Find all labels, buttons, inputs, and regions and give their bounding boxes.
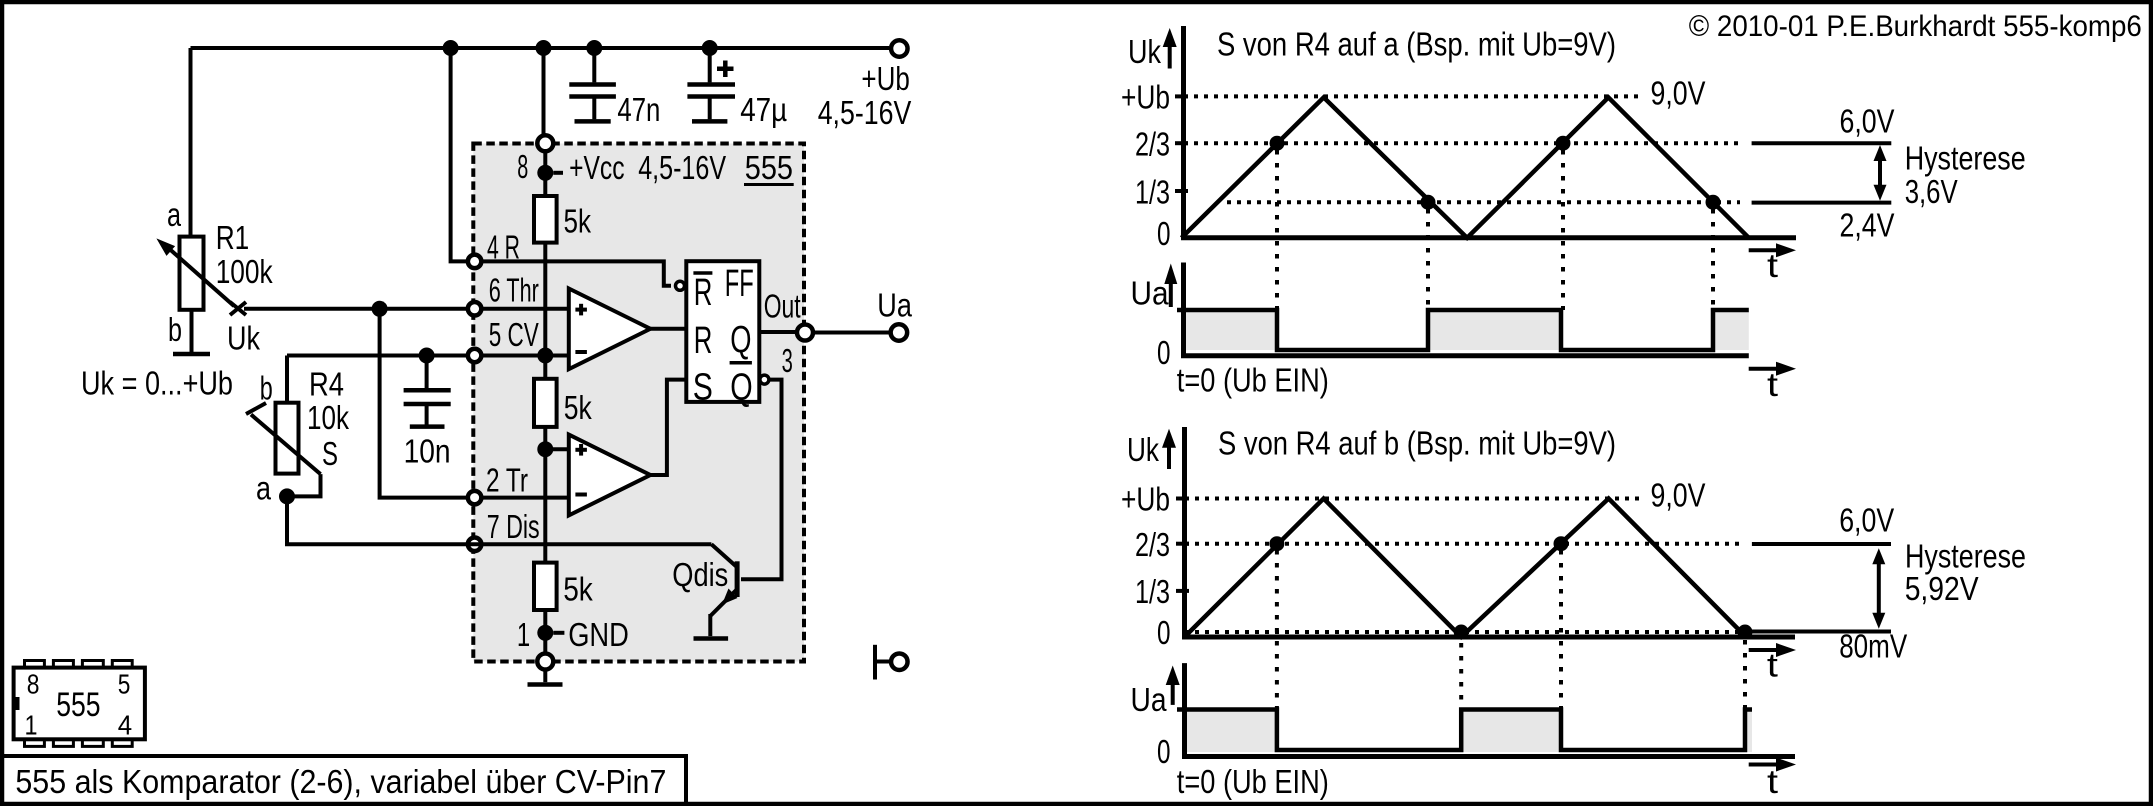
svg-text:555: 555 xyxy=(56,686,100,724)
node junction above C 10n xyxy=(419,348,435,364)
svg-text:7 Dis: 7 Dis xyxy=(487,508,540,545)
graph A triangle waveform Uk xyxy=(1182,97,1749,237)
svg-text:47µ: 47µ xyxy=(740,91,787,128)
svg-text:+Ub: +Ub xyxy=(1121,481,1170,518)
svg-text:0: 0 xyxy=(1157,215,1171,252)
svg-text:t: t xyxy=(1767,647,1778,684)
label 555 underlined xyxy=(744,149,794,186)
ground under 10n xyxy=(410,424,445,429)
wire: rail to pin 8 xyxy=(542,48,546,135)
svg-text:555 als Komparator (2-6), vari: 555 als Komparator (2-6), variabel über … xyxy=(15,763,666,800)
svg-text:© 2010-01 P.E.Burkhardt 555-ko: © 2010-01 P.E.Burkhardt 555-komp6 xyxy=(1689,10,2142,43)
graph B triangle waveform Uk xyxy=(1185,499,1747,638)
svg-text:+Vcc: +Vcc xyxy=(569,149,625,186)
wire: divider lower to pin1 xyxy=(543,610,547,654)
svg-text:S: S xyxy=(322,435,338,472)
svg-text:+Ub: +Ub xyxy=(1121,79,1170,116)
graph A hysteresis annotation xyxy=(1752,103,2026,244)
svg-text:3,6V: 3,6V xyxy=(1905,173,1958,210)
svg-text:4: 4 xyxy=(118,710,132,741)
potentiometer R1 xyxy=(156,48,273,352)
svg-text:555: 555 xyxy=(745,149,793,186)
svg-text:9,0V: 9,0V xyxy=(1651,75,1706,112)
svg-text:Uk: Uk xyxy=(1127,431,1159,468)
IC DIP-8 package symbol 555 xyxy=(13,661,145,747)
graph A x axis xyxy=(1181,235,1796,240)
potentiometer R4 xyxy=(246,356,349,507)
wire: comparator2 out to FF S xyxy=(650,380,686,475)
pin 1 circle xyxy=(537,654,553,670)
resistor 5k upper xyxy=(534,196,591,243)
svg-text:R: R xyxy=(694,320,713,362)
svg-text:3: 3 xyxy=(782,342,793,379)
graph B Ua x axis xyxy=(1182,754,1795,759)
graph B level labels xyxy=(1121,481,1171,652)
node junction on rail above pin 8 xyxy=(536,40,552,56)
graph A dotted verticals xyxy=(1277,150,1713,310)
pin 4 circle xyxy=(468,255,482,269)
svg-text:0: 0 xyxy=(1157,334,1171,371)
svg-text:1: 1 xyxy=(517,616,530,653)
svg-text:Uk: Uk xyxy=(227,320,260,357)
svg-text:GND: GND xyxy=(568,616,629,653)
wire: FF Qbar to Qdis base xyxy=(741,380,782,580)
node junction on rail above C 47u xyxy=(702,40,718,56)
svg-text:4,5-16V: 4,5-16V xyxy=(638,149,726,186)
svg-text:t=0 (Ub EIN): t=0 (Ub EIN) xyxy=(1177,763,1329,800)
svg-text:5,92V: 5,92V xyxy=(1905,570,1979,607)
svg-text:2/3: 2/3 xyxy=(1135,526,1170,563)
capacitor 10n xyxy=(404,356,451,470)
graph B Ua x axis arrow and t xyxy=(1749,758,1796,801)
svg-text:1/3: 1/3 xyxy=(1135,173,1170,210)
terminal Ua ground reference xyxy=(875,645,908,680)
wire: R1 wiper to pin 6 Thr xyxy=(244,307,466,311)
svg-text:10k: 10k xyxy=(307,399,349,436)
graph A dotted level +Ub xyxy=(1184,94,1641,98)
wire: rail to pin 4 R xyxy=(451,48,467,261)
svg-text:Uk = 0...+Ub: Uk = 0...+Ub xyxy=(81,365,233,402)
graph A threshold dots xyxy=(1270,136,1721,210)
op-amp comparator 2 (Tr) xyxy=(569,435,651,516)
wire: R4 a to pin 7 Dis xyxy=(287,496,466,544)
graph A dotted level 2/3 xyxy=(1184,141,1740,145)
wire: pin2 to comparator2 minus xyxy=(482,496,569,500)
ground under Qdis emitter xyxy=(694,636,729,641)
svg-text:FF: FF xyxy=(725,263,754,305)
graph A Ua y axis xyxy=(1181,263,1186,356)
svg-text:Qdis: Qdis xyxy=(672,556,728,593)
graph A Ua square wave fill xyxy=(1182,310,1749,350)
wire: pin3 to Ua terminal xyxy=(812,331,890,335)
graph B dotted level 0 xyxy=(1185,630,1741,634)
svg-text:1/3: 1/3 xyxy=(1135,573,1170,610)
pin 6 circle xyxy=(468,302,482,316)
resistor 5k middle xyxy=(534,379,592,427)
pin 7 circle xyxy=(468,538,482,552)
caption box xyxy=(2,756,686,804)
graph B y axis xyxy=(1182,427,1187,637)
terminal +Ub xyxy=(818,40,912,131)
FF Qbar inversion bubble xyxy=(760,375,769,384)
graph B Ua axis label and arrow xyxy=(1131,666,1180,719)
wire: divider middle to lower xyxy=(543,427,547,563)
svg-text:10n: 10n xyxy=(404,433,451,470)
graph A level labels xyxy=(1121,79,1171,253)
svg-text:+Ub: +Ub xyxy=(861,60,909,97)
svg-text:8: 8 xyxy=(517,148,528,185)
svg-text:S von R4 auf b (Bsp. mit Ub=9V: S von R4 auf b (Bsp. mit Ub=9V) xyxy=(1218,425,1616,462)
graph B dotted verticals xyxy=(1277,550,1745,753)
svg-text:1: 1 xyxy=(25,710,38,741)
graph B x axis arrow and t xyxy=(1749,643,1796,684)
svg-text:0: 0 xyxy=(1157,614,1171,651)
node junction pin 8 +Vcc xyxy=(517,148,726,186)
svg-text:a: a xyxy=(256,470,272,507)
graph B threshold dots xyxy=(1269,536,1752,639)
pin 2 circle xyxy=(468,491,482,505)
graph A Ua x axis arrow and t xyxy=(1749,362,1796,403)
wire: pin4 to FF Rbar xyxy=(481,261,671,285)
svg-text:100k: 100k xyxy=(216,253,273,290)
wire: divider upper to CV xyxy=(543,243,547,379)
svg-text:2/3: 2/3 xyxy=(1135,126,1170,163)
graph B Ua y axis xyxy=(1182,663,1187,756)
graph B dotted level +Ub xyxy=(1185,497,1644,501)
svg-text:Hysterese: Hysterese xyxy=(1905,140,2026,177)
svg-text:Uk: Uk xyxy=(1128,33,1161,70)
svg-text:4,5-16V: 4,5-16V xyxy=(818,94,912,131)
ground under pin1 xyxy=(528,682,563,687)
node junction R4 a xyxy=(279,488,295,504)
graph A y axis xyxy=(1181,26,1186,238)
graph A Uk axis label and arrow xyxy=(1128,28,1177,70)
graph B hysteresis annotation xyxy=(1752,502,2026,665)
svg-text:5: 5 xyxy=(118,669,131,700)
node junction divider CV xyxy=(537,348,553,364)
svg-text:t: t xyxy=(1767,763,1778,800)
FF Rbar inversion bubble xyxy=(676,281,685,290)
node junction divider 1/3 xyxy=(537,441,553,457)
ground under R1 xyxy=(173,352,210,357)
svg-text:0: 0 xyxy=(1157,733,1171,770)
svg-text:6,0V: 6,0V xyxy=(1840,103,1895,140)
svg-text:R4: R4 xyxy=(309,366,344,403)
wire: Uk down to 2 Tr xyxy=(380,309,467,498)
svg-text:6,0V: 6,0V xyxy=(1839,502,1894,539)
svg-text:5k: 5k xyxy=(564,203,592,240)
capacitor C 47u electrolytic xyxy=(687,48,787,128)
graph B level ticks xyxy=(1176,499,1189,591)
pin 3 circle xyxy=(797,325,813,341)
svg-text:Q: Q xyxy=(730,319,751,361)
node junction Uk wire xyxy=(372,301,388,317)
svg-text:8: 8 xyxy=(27,669,40,700)
graph B Ua square wave fill xyxy=(1183,710,1752,753)
svg-text:5k: 5k xyxy=(563,571,593,608)
wire: +Ub top supply rail xyxy=(191,46,890,50)
pin 5 circle xyxy=(468,349,482,363)
svg-text:80mV: 80mV xyxy=(1839,628,1907,665)
graph A x axis arrow and t xyxy=(1749,243,1796,284)
svg-text:S: S xyxy=(693,367,713,409)
wire: FF Q to pin 3 xyxy=(759,330,798,334)
flip-flop U FF xyxy=(686,261,759,409)
svg-text:t: t xyxy=(1767,366,1778,403)
svg-text:2 Tr: 2 Tr xyxy=(486,462,528,499)
svg-text:Ua: Ua xyxy=(1131,681,1168,718)
graph B Ua square wave xyxy=(1177,710,1752,751)
svg-text:R: R xyxy=(694,272,713,314)
svg-text:b: b xyxy=(260,370,273,407)
graph B Uk axis label and arrow xyxy=(1127,429,1176,469)
svg-text:2,4V: 2,4V xyxy=(1840,207,1895,244)
pin 8 circle xyxy=(537,135,553,151)
svg-text:5 CV: 5 CV xyxy=(489,316,539,353)
ground under 47u xyxy=(692,119,727,124)
svg-text:Ua: Ua xyxy=(877,287,912,324)
IC 555 internal dashed box xyxy=(473,144,804,662)
graph B dotted level 2/3 xyxy=(1185,542,1741,546)
graph A dotted level 2,4V xyxy=(1227,200,1740,204)
resistor 5k lower xyxy=(534,563,593,610)
svg-text:S von R4 auf a (Bsp. mit Ub=9V: S von R4 auf a (Bsp. mit Ub=9V) xyxy=(1217,26,1616,63)
wire: pin8 to divider xyxy=(543,151,547,196)
svg-text:6 Thr: 6 Thr xyxy=(489,272,539,309)
ground under 47n xyxy=(575,119,611,124)
capacitor C 47n xyxy=(569,48,660,128)
svg-text:a: a xyxy=(167,196,181,233)
svg-text:Q: Q xyxy=(730,367,752,409)
wire: pin1 to ground xyxy=(543,670,547,683)
wire: 1/3 node to comparator2 plus xyxy=(545,447,569,451)
wire: comparator1 out to FF R xyxy=(650,327,686,331)
graph A level ticks xyxy=(1175,96,1188,191)
svg-text:Ua: Ua xyxy=(1131,275,1170,312)
graph A Ua x axis xyxy=(1181,353,1749,358)
svg-text:Out: Out xyxy=(764,288,801,325)
svg-text:R1: R1 xyxy=(216,219,250,256)
wire: pin6 to comparator1 plus xyxy=(482,307,569,311)
svg-text:b: b xyxy=(168,311,182,348)
graph A Ua axis label and arrow xyxy=(1131,264,1178,312)
svg-text:5k: 5k xyxy=(564,389,592,426)
graph B x axis xyxy=(1182,635,1795,640)
svg-text:t: t xyxy=(1767,247,1778,284)
node junction on rail above C 47n xyxy=(586,40,602,56)
svg-text:47n: 47n xyxy=(617,91,660,128)
graph A Ua square wave xyxy=(1177,310,1749,350)
transistor Qdis xyxy=(466,544,737,636)
terminal Ua xyxy=(877,287,912,341)
svg-text:9,0V: 9,0V xyxy=(1651,477,1706,514)
node junction on rail above pin8 branch xyxy=(443,40,459,56)
op-amp comparator 1 (Thr) xyxy=(569,289,651,370)
node junction pin 1 GND xyxy=(517,616,629,653)
svg-text:Hysterese: Hysterese xyxy=(1905,537,2026,574)
wire: pin5 CV inside to comparator1 minus xyxy=(482,354,569,358)
svg-text:t=0 (Ub EIN): t=0 (Ub EIN) xyxy=(1177,362,1329,399)
wire: CV rail (R4 b to pin 5) xyxy=(287,354,466,358)
